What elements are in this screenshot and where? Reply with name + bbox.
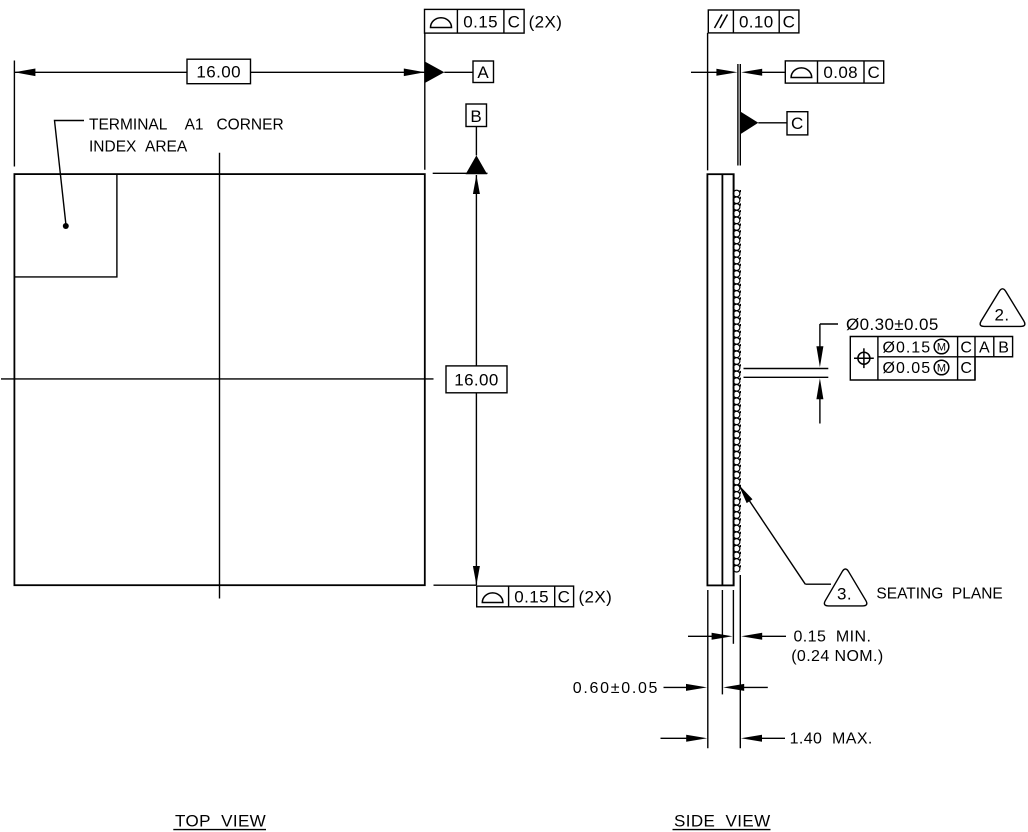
svg-text:16.00: 16.00 xyxy=(454,371,499,390)
svg-text:(2X): (2X) xyxy=(529,13,563,32)
svg-text:3.: 3. xyxy=(837,585,852,604)
datum C symbol xyxy=(740,112,758,135)
svg-text:A: A xyxy=(477,63,489,82)
svg-text:0.60±0.05: 0.60±0.05 xyxy=(573,680,659,697)
svg-text:(0.24 NOM.): (0.24 NOM.) xyxy=(791,648,883,665)
vertical center line xyxy=(219,153,221,599)
svg-text:C: C xyxy=(867,63,880,82)
svg-text:C: C xyxy=(960,339,972,356)
coplanarity FCF 0.08 C xyxy=(785,61,883,83)
bottom extension line xyxy=(434,584,477,586)
ball diameter dimension lines xyxy=(744,368,829,370)
dimension 1.40 MAX xyxy=(661,737,688,739)
svg-text:0.10: 0.10 xyxy=(739,13,774,32)
parallelism FCF 0.10 C xyxy=(708,10,799,33)
dimension line xyxy=(14,71,187,73)
package body outline (top view square) xyxy=(14,174,424,585)
top extension line of vertical dim xyxy=(433,172,488,174)
leader line from parallelism FCF xyxy=(707,33,709,171)
dimension box 16.00 (vertical) xyxy=(446,366,507,393)
leader to text xyxy=(820,323,838,325)
svg-text:(2X): (2X) xyxy=(579,587,613,606)
svg-text:0.08: 0.08 xyxy=(823,63,858,82)
svg-text:16.00: 16.00 xyxy=(196,63,241,82)
datum B symbol xyxy=(466,104,487,127)
svg-text:0.15: 0.15 xyxy=(463,13,498,32)
feature control frame top (profile 0.15 C) xyxy=(425,9,563,33)
note triangle 3. xyxy=(824,569,866,606)
svg-text:C: C xyxy=(508,13,521,32)
svg-text:C: C xyxy=(558,587,571,606)
svg-text:INDEX AREA: INDEX AREA xyxy=(89,138,188,155)
svg-text:TOP VIEW: TOP VIEW xyxy=(175,812,266,831)
svg-text:Ø0.30±0.05: Ø0.30±0.05 xyxy=(846,315,939,334)
vertical dimension 16.00 xyxy=(475,175,477,366)
index area leader line xyxy=(55,121,85,224)
horizontal center line xyxy=(1,378,434,380)
svg-text:SEATING PLANE: SEATING PLANE xyxy=(876,585,1002,602)
svg-text:B: B xyxy=(470,107,482,126)
svg-text:C: C xyxy=(960,360,972,377)
svg-text:A: A xyxy=(979,339,990,356)
svg-text:Ø0.15: Ø0.15 xyxy=(883,339,932,356)
body right edge redrawn over balls xyxy=(733,174,735,585)
feature control frame bottom (profile 0.15 C) xyxy=(477,586,613,607)
note triangle 2. xyxy=(980,289,1025,327)
svg-text:C: C xyxy=(791,114,804,133)
svg-text:B: B xyxy=(998,339,1009,356)
svg-text:0.15 MIN.: 0.15 MIN. xyxy=(794,629,872,646)
svg-text:TERMINAL A1 CORNER: TERMINAL A1 CORNER xyxy=(89,117,284,134)
dimension 0.15 MIN xyxy=(688,635,713,637)
svg-text:SIDE VIEW: SIDE VIEW xyxy=(674,812,771,831)
svg-text:1.40 MAX.: 1.40 MAX. xyxy=(790,731,873,748)
datum A symbol xyxy=(425,62,445,84)
lower arrow xyxy=(816,378,823,399)
svg-text:2.: 2. xyxy=(995,306,1010,325)
position FCF double row xyxy=(850,337,1012,381)
side view body xyxy=(707,174,733,585)
svg-text:M: M xyxy=(937,363,946,375)
seating plane leader xyxy=(739,485,806,585)
svg-text:Ø0.05: Ø0.05 xyxy=(883,360,932,377)
body inner line xyxy=(721,174,723,585)
svg-text:M: M xyxy=(937,342,946,354)
solder balls xyxy=(733,190,740,572)
index area leader dot xyxy=(63,223,69,229)
extension line right xyxy=(424,33,426,170)
extension line left xyxy=(13,61,15,167)
dimension box 16.00 (horizontal) xyxy=(187,59,251,83)
seating plane double extension lines top xyxy=(737,64,739,166)
extension lines below body xyxy=(707,590,709,748)
upper arrow xyxy=(819,324,821,347)
svg-text:0.15: 0.15 xyxy=(514,587,549,606)
gap dimension arrows at top xyxy=(691,71,717,73)
terminal A1 corner index area box xyxy=(14,174,117,277)
svg-text:C: C xyxy=(783,13,796,32)
position symbol xyxy=(858,352,870,364)
seating plane dashed line along balls xyxy=(739,190,741,572)
